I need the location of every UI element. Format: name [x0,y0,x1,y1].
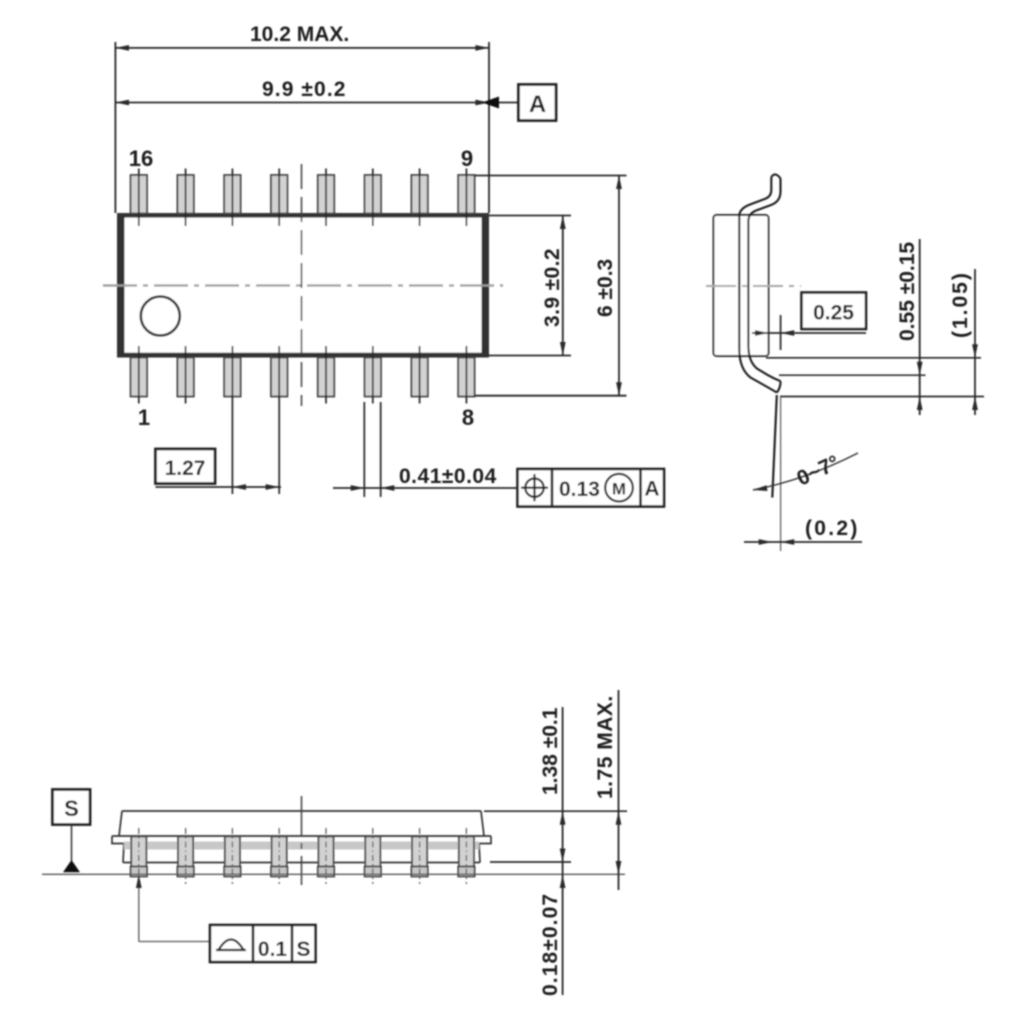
svg-text:0.41±0.04: 0.41±0.04 [399,465,497,488]
pin 13 [271,169,287,227]
pin 9 [458,169,474,227]
lead angle 0~7 degrees [753,395,858,551]
pin 14 [224,169,240,227]
svg-text:16: 16 [129,146,153,171]
svg-text:(0.2): (0.2) [805,517,860,540]
front view body outline [112,811,491,863]
lead 6 front view [365,828,381,884]
pin 8 [458,346,474,404]
lead 4 front view [271,828,287,884]
datum A leader and box [482,85,556,121]
svg-text:1.38 ±0.1: 1.38 ±0.1 [539,707,562,795]
dimension 1.27 pitch [156,449,282,490]
dimension 0.55 +/-0.15 foot length [766,239,984,415]
pin 6 with width extension lines [364,346,381,497]
pin 7 [411,346,427,404]
seating plane line [42,873,625,875]
lead 1 front view [131,828,147,884]
lead 7 front view [411,828,427,884]
svg-text:M: M [612,480,626,499]
pin 10 [411,169,427,227]
dimension 0.25 lead thickness [752,293,866,351]
svg-text:6 ±0.3: 6 ±0.3 [594,259,617,317]
svg-text:1.27: 1.27 [165,457,206,480]
datum S box and triangle [53,790,91,873]
svg-text:A: A [529,91,546,118]
flatness callout 0.1 S [136,875,316,963]
vertical centerline [301,164,303,406]
lead 8 front view [458,828,474,884]
dimension 0.18 +/-0.07 standoff [539,875,566,997]
dimension 0.41 +/-0.04 lead width [333,465,518,491]
dimension 1.75 MAX [594,690,621,890]
svg-text:9.9 ±0.2: 9.9 ±0.2 [262,78,347,101]
svg-text:0.55 ±0.15: 0.55 ±0.15 [896,242,919,341]
gull-wing lead profile [739,174,780,392]
side view centerline [706,285,801,287]
dimension 9.9 +/-0.2 [115,78,489,105]
lead 3 front view [224,828,240,884]
lead 5 front view [318,828,334,884]
pin 16 [131,169,147,227]
svg-text:3.9 ±0.2: 3.9 ±0.2 [541,248,564,327]
pin 1 index circle [141,297,180,336]
lead 2 front view [177,828,193,884]
side view body [714,215,769,356]
feature control frame: position 0.13 M A [518,469,665,507]
svg-text:0.18±0.07: 0.18±0.07 [539,893,562,996]
front view vertical centerline [301,796,303,885]
package body U1 top view [117,213,489,358]
dimension 3.9 +/-0.2 [489,216,571,356]
svg-text:10.2 MAX.: 10.2 MAX. [250,23,349,46]
svg-text:1: 1 [138,405,150,430]
svg-text:9: 9 [461,146,473,171]
pin 15 [177,169,193,227]
svg-text:0.13: 0.13 [559,478,600,501]
svg-text:(1.05): (1.05) [949,271,972,338]
dimension (1.05) [949,269,978,415]
svg-text:S: S [296,938,310,961]
pin 1 [131,346,147,404]
pin 11 [365,169,381,227]
pin 2 [177,346,193,404]
svg-text:8: 8 [462,405,474,430]
svg-text:1.75 MAX.: 1.75 MAX. [594,695,617,799]
dimension (0.2) [744,517,862,545]
svg-text:0.1: 0.1 [258,938,288,961]
pin 4 [271,346,287,494]
front view body shadow band [124,842,479,850]
horizontal centerline [103,284,503,286]
dimension 10.2 MAX [115,23,489,213]
pin 3 [224,346,240,494]
pin 12 [318,169,334,227]
pin 5 [318,346,334,404]
svg-text:0~7°: 0~7° [793,451,843,490]
dimension 1.38 +/-0.1 [484,707,627,995]
dimension 6 +/-0.3 [474,176,627,396]
svg-text:0.25: 0.25 [813,302,854,325]
svg-text:S: S [64,796,79,821]
svg-text:A: A [644,478,659,501]
